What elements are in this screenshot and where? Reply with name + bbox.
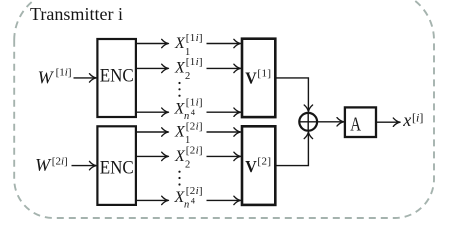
label X1[1i] [174, 32, 203, 58]
wire A to x[i] [376, 121, 400, 123]
wire X1[1i] to V1 [207, 43, 241, 45]
label Xn4[1i] [174, 97, 203, 122]
label Transmitter i [30, 4, 123, 24]
wire ENC1 to X1[1i] [136, 43, 168, 45]
svg-text:[2i]: [2i] [186, 185, 203, 197]
label X1[2i] [174, 120, 203, 146]
wire V1 to adder [275, 78, 308, 111]
vdots group 2 [178, 171, 180, 186]
adder [299, 113, 317, 131]
wire Xn4[1i] to V1 [207, 111, 241, 113]
svg-text:W: W [38, 67, 55, 87]
svg-text:[1i]: [1i] [186, 32, 203, 44]
block V2 [242, 126, 275, 205]
svg-text:2: 2 [185, 159, 190, 170]
wire ENC2 to X1[2i] [136, 131, 168, 133]
svg-text:[i]: [i] [412, 111, 423, 125]
svg-text:[1i]: [1i] [186, 97, 203, 109]
wire V2 to adder [275, 132, 308, 165]
svg-text:[2]: [2] [257, 156, 271, 168]
label X2[2i] [174, 145, 203, 171]
svg-text:4: 4 [191, 107, 196, 117]
svg-text:Transmitter i: Transmitter i [30, 4, 123, 24]
svg-text:x: x [402, 110, 411, 130]
wire ENC2 to X2[2i] [136, 155, 168, 157]
svg-text:A: A [350, 114, 361, 136]
wire W[1i] to ENC1 [74, 77, 96, 79]
wire ENC1 to X2[1i] [136, 67, 168, 69]
label Xn4[2i] [174, 185, 203, 210]
block A [345, 107, 376, 137]
svg-text:V: V [245, 157, 257, 176]
svg-text:[1]: [1] [257, 67, 271, 79]
wire W[2i] to ENC2 [72, 165, 96, 167]
wire X2[1i] to V1 [207, 67, 241, 69]
label X2[1i] [174, 56, 203, 82]
svg-text:ENC: ENC [100, 159, 134, 179]
svg-text:[1i]: [1i] [186, 56, 203, 68]
wire adder to A [299, 121, 343, 123]
svg-text:[2i]: [2i] [186, 120, 203, 132]
wire Xn4[2i] to V2 [207, 199, 241, 201]
wire X2[2i] to V2 [207, 155, 241, 157]
wire ENC2 to Xn4[2i] [136, 199, 168, 201]
svg-text:W: W [35, 155, 52, 175]
svg-text:[2i]: [2i] [186, 145, 203, 157]
label W[2i] [35, 155, 68, 175]
svg-text:[2i]: [2i] [52, 156, 68, 168]
svg-text:n: n [184, 199, 189, 210]
svg-text:[1i]: [1i] [56, 67, 72, 79]
svg-text:V: V [245, 69, 257, 88]
block V1 [242, 39, 275, 117]
block ENC1 [97, 39, 135, 117]
vdots group 1 [178, 82, 180, 97]
wire ENC1 to Xn4[1i] [136, 111, 168, 113]
svg-text:2: 2 [185, 71, 190, 82]
svg-text:ENC: ENC [100, 67, 134, 87]
block ENC2 [97, 126, 135, 205]
label x[i] [402, 110, 423, 130]
wire X1[2i] to V2 [207, 131, 241, 133]
label W[1i] [38, 67, 72, 88]
